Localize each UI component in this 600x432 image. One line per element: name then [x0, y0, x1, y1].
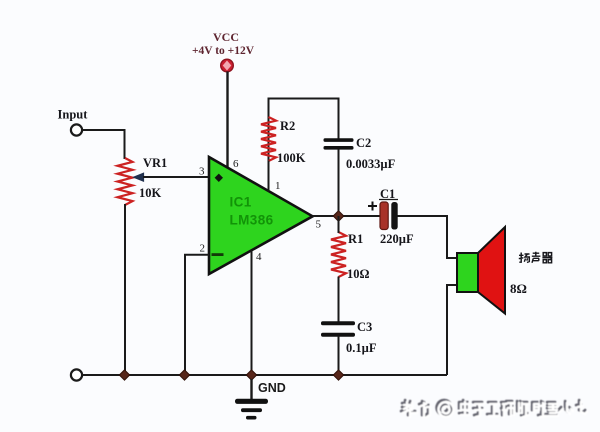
- ground symbol: [235, 379, 268, 420]
- wire C3 to ground rail: [338, 336, 340, 375]
- junction VR1/rail: [119, 370, 129, 380]
- resistor R1: [331, 232, 346, 277]
- svg-text:Input: Input: [58, 108, 89, 122]
- op-amp IC1 LM386: [209, 157, 313, 274]
- svg-text:6: 6: [233, 158, 239, 170]
- wire pin 2 to ground rail: [185, 255, 209, 375]
- resistor R2: [261, 117, 276, 161]
- svg-text:3: 3: [199, 166, 205, 178]
- wire node to R1: [338, 216, 340, 233]
- wire R1 to C3: [338, 277, 340, 323]
- wire speaker bottom to rail: [447, 285, 458, 375]
- svg-text:2: 2: [200, 243, 206, 255]
- junction pin4/rail: [246, 370, 256, 380]
- wire C1 to speaker: [398, 216, 459, 258]
- svg-text:C2: C2: [356, 136, 371, 150]
- wire VR1 bottom to ground rail: [124, 204, 126, 375]
- svg-text:VR1: VR1: [143, 156, 167, 170]
- speaker: [457, 227, 505, 314]
- wire input to VR1: [83, 130, 125, 159]
- svg-text:R2: R2: [280, 119, 295, 133]
- svg-text:IC1: IC1: [230, 195, 252, 210]
- VCC terminal: [221, 59, 234, 72]
- capacitor C1 (electrolytic): [380, 202, 398, 230]
- svg-text:8Ω: 8Ω: [510, 281, 527, 296]
- svg-text:10K: 10K: [139, 186, 162, 200]
- junction pin2/rail: [179, 370, 189, 380]
- speaker label (Chinese: loudspeaker): [519, 252, 553, 263]
- svg-text:220µF: 220µF: [380, 232, 414, 246]
- wire VCC to pin 6: [226, 72, 228, 169]
- VCC label: [192, 30, 255, 57]
- wire pin 5 to C1: [313, 215, 380, 217]
- potentiometer VR1: [118, 158, 133, 205]
- wire R2 bottom to pin 1: [268, 161, 270, 192]
- svg-text:10Ω: 10Ω: [347, 267, 370, 281]
- wire wiper to pin 3: [143, 176, 209, 178]
- svg-text:R1: R1: [348, 232, 363, 246]
- svg-text:GND: GND: [258, 381, 286, 395]
- top feedback wire: [269, 99, 339, 161]
- wire C2 to output node: [338, 149, 340, 216]
- svg-text:4: 4: [256, 251, 262, 263]
- capacitor C3: [321, 321, 355, 336]
- svg-text:C3: C3: [357, 320, 372, 334]
- svg-text:0.1µF: 0.1µF: [346, 341, 377, 355]
- watermark (embossed zhihu): [401, 400, 587, 417]
- ground rail: [82, 374, 447, 376]
- svg-text:+4V to +12V: +4V to +12V: [192, 45, 255, 57]
- C1 plus sign: [368, 202, 377, 211]
- svg-text:5: 5: [316, 219, 322, 231]
- svg-text:100K: 100K: [277, 151, 306, 165]
- svg-text:VCC: VCC: [213, 30, 239, 44]
- left ground terminal: [71, 369, 82, 380]
- junction C3/rail: [333, 370, 343, 380]
- svg-text:0.0033µF: 0.0033µF: [346, 157, 396, 171]
- output node junction: [333, 211, 344, 222]
- wire pin 4 to ground rail: [251, 251, 253, 376]
- svg-text:LM386: LM386: [230, 213, 274, 228]
- VR1 wiper arrow: [133, 173, 144, 182]
- svg-text:1: 1: [275, 180, 281, 192]
- capacitor C2: [324, 138, 354, 149]
- input terminal: [71, 124, 82, 135]
